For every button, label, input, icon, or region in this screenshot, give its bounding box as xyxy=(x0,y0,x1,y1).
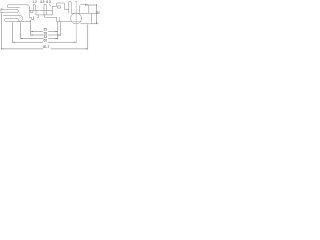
svg-text:3.5: 3.5 xyxy=(40,0,45,4)
dim row 4 line y42.2 xyxy=(13,41,77,43)
small window box under plateau xyxy=(58,6,61,8)
tiny labels xyxy=(32,0,100,49)
box on body under mid line xyxy=(31,10,33,12)
vertical joining mid lines xyxy=(35,10,37,15)
right wall of mid box xyxy=(52,6,54,15)
svg-text:60: 60 xyxy=(44,39,48,43)
right ext lines xyxy=(92,13,98,23)
dim row 3 line y38.6 xyxy=(21,38,58,40)
dimension/extension lines xyxy=(1,4,98,50)
dim row 1 line y31.4 xyxy=(31,30,58,32)
ext line x57.8 xyxy=(57,22,59,39)
ext line x87.8 xyxy=(87,24,89,49)
right flange edge xyxy=(91,13,93,23)
lower terminal bottom line xyxy=(6,21,31,23)
lower terminal right U-bend outer xyxy=(20,15,23,21)
svg-text:6.3: 6.3 xyxy=(46,0,51,4)
blade tip bracket xyxy=(1,9,3,13)
dim row 2 line y35.0 xyxy=(31,34,61,36)
arrowheads xyxy=(1,11,97,49)
svg-text:1.2: 1.2 xyxy=(32,0,37,4)
step down right of foot xyxy=(60,22,62,24)
valley step and foot xyxy=(45,15,57,18)
bottom edge line behind circle xyxy=(71,21,81,23)
hook below mid line xyxy=(37,15,38,18)
lower terminal inner right arc xyxy=(17,19,18,22)
right side dim: top line xyxy=(85,4,97,6)
body mid horizontal line xyxy=(29,9,52,11)
base line under dome xyxy=(71,12,91,14)
ext line x60.6 xyxy=(60,24,62,36)
tall narrow rectangle xyxy=(69,2,71,14)
bottom edge left of circle xyxy=(57,21,71,23)
blade terminal upper line xyxy=(1,9,17,11)
svg-text:81.7: 81.7 xyxy=(43,45,49,49)
blade terminal lower line xyxy=(1,11,17,13)
leader line below 6.3 label xyxy=(49,4,50,6)
lower terminal inner line xyxy=(7,18,18,20)
ext line x30.7 xyxy=(30,20,32,36)
step up to plateau xyxy=(53,3,69,10)
ext line x20.6 xyxy=(20,22,22,39)
foot box xyxy=(57,17,60,21)
dome (arched boss) xyxy=(80,4,89,13)
centerline of circle xyxy=(75,1,77,43)
blade rounded right end xyxy=(17,10,20,13)
ext line x12.6 xyxy=(12,22,14,43)
lower bent terminal top face xyxy=(4,14,20,16)
mounting hole circle xyxy=(71,13,82,24)
mid lower line xyxy=(36,14,53,16)
svg-text:10: 10 xyxy=(97,11,100,15)
tab 2 post xyxy=(44,4,46,15)
lower-right corner steps of body xyxy=(29,16,33,19)
bottom edge under/right of circle xyxy=(81,23,92,25)
upper slot (female terminal opening, left) xyxy=(7,5,27,8)
dim row 5 line y48.9 xyxy=(1,48,87,50)
body right rounded corner xyxy=(27,5,29,17)
lower terminal left cap xyxy=(5,19,7,22)
ext line left blade tip xyxy=(0,14,2,50)
tab 1 on top of body xyxy=(33,5,35,11)
right vertical dim line xyxy=(95,5,97,24)
